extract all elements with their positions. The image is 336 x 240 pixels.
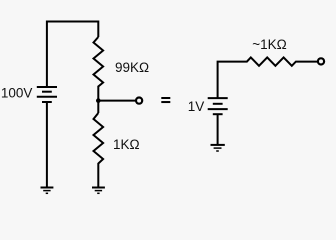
svg-text:100V: 100V — [1, 86, 33, 101]
svg-text:1V: 1V — [188, 99, 205, 114]
svg-text:99KΩ: 99KΩ — [115, 60, 149, 75]
svg-text:1KΩ: 1KΩ — [113, 137, 140, 152]
svg-text:~1KΩ: ~1KΩ — [252, 37, 287, 52]
